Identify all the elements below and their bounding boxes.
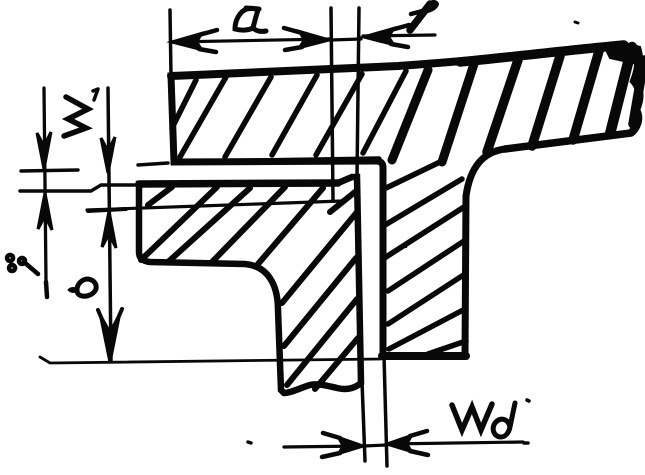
- Wd connector across gap: [364, 445, 386, 446]
- top edge right reinforcement: [460, 45, 624, 62]
- upper flange bottom edge reinforcing: [174, 159, 379, 162]
- hatching lower part ~45deg: [148, 187, 172, 205]
- label a (handwritten): [235, 8, 258, 30]
- dim line B vertical (W1 / b): [108, 88, 111, 361]
- upper part outline: [171, 45, 640, 356]
- short mid extension of flange bottom: [138, 163, 168, 165]
- vertical extension line x=331: [331, 8, 333, 200]
- thin face line across lower part: [87, 201, 342, 210]
- tongue right edge extension below break: [362, 381, 365, 461]
- right edge blob reinforcement: [632, 50, 640, 132]
- squiggle label bottom left: [7, 255, 38, 274]
- label b (rotated): [77, 279, 96, 296]
- Wd dim left line with right arrow: [284, 446, 362, 447]
- spigot left edge extension below bottom: [384, 356, 387, 466]
- scan speck top: [575, 22, 578, 23]
- tick upper flange bottom extension left: [21, 170, 78, 171]
- line A down arrow: [37, 132, 51, 169]
- label f (handwritten): [410, 4, 430, 30]
- dim a left arrow: [171, 33, 202, 50]
- dim a line: [173, 39, 330, 42]
- upper top edge thick: [171, 45, 625, 76]
- tick at dim line B for face line: [88, 209, 126, 211]
- Wd dim right line with left arrow: [388, 442, 523, 444]
- b big down arrow: [101, 316, 119, 361]
- dim f segment between ext lines: [331, 39, 361, 40]
- hatching upper flange left ~58deg: [172, 80, 196, 128]
- hatching spigot ~33deg: [384, 162, 440, 189]
- bottom extension line for b: [40, 357, 381, 363]
- bottom right edge reinforcement: [505, 133, 631, 149]
- left small dim (squiggle label) vertical line A: [44, 88, 46, 281]
- dim f arrow line from right: [363, 35, 435, 36]
- hatching upper flange right, steep thick: [392, 70, 428, 160]
- b up arrow: [102, 211, 116, 248]
- scan speck mid: [404, 246, 406, 247]
- dim a right arrow: [299, 31, 330, 48]
- spigot bottom edge thick: [382, 352, 466, 360]
- lower top edge thick: [139, 183, 338, 184]
- W1 down arrow: [101, 137, 115, 173]
- extension of flange left edge above: [170, 10, 171, 76]
- label W1 (rotated): [64, 97, 88, 136]
- line A up arrow: [38, 193, 52, 230]
- line A dark bottom end: [46, 282, 47, 297]
- scan dot 2: [524, 441, 528, 445]
- label Wd: [452, 404, 492, 430]
- top-right corner blob: [604, 46, 638, 64]
- lower part outline: [139, 177, 361, 393]
- scan dot: [248, 442, 251, 443]
- vertical extension line x=360 top (tongue right edge extension): [357, 8, 359, 177]
- lower part top edge extension with jog: [20, 185, 139, 191]
